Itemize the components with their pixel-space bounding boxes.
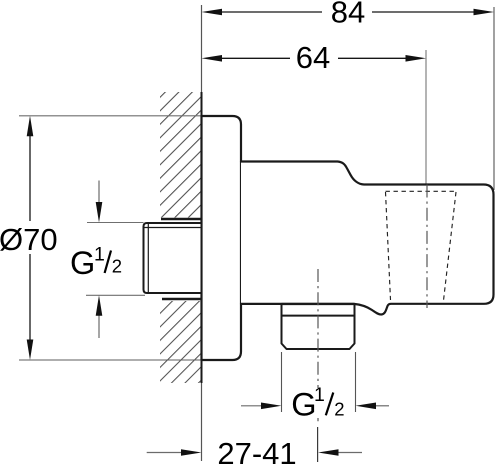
wall hatching lower	[160, 301, 202, 383]
svg-text:2: 2	[334, 398, 344, 419]
dimension 27-41 left arrow	[147, 452, 184, 454]
dimension G1/2 bottom left arrow	[241, 405, 264, 407]
wall hole lower edge	[162, 298, 201, 301]
svg-text:2: 2	[112, 255, 122, 276]
arrow D70 bottom	[27, 340, 34, 361]
mask under bottom G1/2 label	[311, 388, 347, 418]
extension line flange bottom D70	[19, 359, 202, 361]
extension line outlet centre lower (27-41)	[317, 427, 319, 462]
extension line wall face above	[201, 5, 203, 92]
holder cone dashed left edge	[386, 192, 391, 300]
arrow 64 right	[406, 55, 427, 62]
label D70	[0, 222, 58, 257]
holder cone dashed top	[386, 190, 458, 192]
arrow 64 left	[202, 55, 223, 62]
dimension G1/2 bottom right arrow	[374, 405, 389, 407]
arrow D70 top	[27, 116, 34, 137]
svg-text:G: G	[291, 386, 316, 422]
svg-text:64: 64	[296, 40, 330, 75]
svg-text:G: G	[70, 245, 95, 281]
extension line flange top D70	[19, 115, 202, 117]
extension line inlet bottom	[86, 294, 145, 296]
extension line outlet left	[281, 352, 283, 412]
holder cone dashed right edge	[444, 192, 457, 301]
holder centre line	[426, 185, 428, 309]
dimension G1/2 left bottom arrow	[98, 314, 100, 338]
arrow 84 left	[202, 9, 223, 16]
label G1/2 left	[70, 243, 122, 281]
wall face line	[201, 92, 203, 383]
label G1/2 bottom	[291, 384, 344, 422]
extension line inlet top	[87, 222, 144, 224]
svg-text:1: 1	[94, 243, 105, 265]
svg-text:27-41: 27-41	[217, 436, 296, 468]
svg-text:84: 84	[331, 0, 365, 30]
svg-text:1: 1	[314, 384, 325, 406]
flange (escutcheon)	[202, 116, 242, 360]
dimension D70 line	[29, 130, 31, 221]
wall hatching upper	[160, 92, 202, 218]
body outline	[241, 162, 494, 315]
extension line outlet right	[355, 352, 357, 412]
wall hole upper edge	[161, 218, 201, 221]
dimension G1/2 left top arrow	[98, 181, 100, 204]
extension line for 64 holder centre	[425, 50, 427, 184]
extension line right for 84	[493, 7, 495, 190]
arrow 84 right	[474, 9, 495, 16]
inlet fitting G1/2	[144, 223, 202, 293]
dimension 84 line	[215, 11, 322, 13]
outlet centre line	[317, 269, 319, 424]
extension line wall face below	[201, 383, 203, 461]
svg-text:Ø70: Ø70	[0, 222, 58, 257]
dimension 27-41 right arrow	[338, 452, 362, 454]
dimension 64 line	[215, 57, 290, 59]
outlet fitting G1/2	[282, 304, 355, 349]
